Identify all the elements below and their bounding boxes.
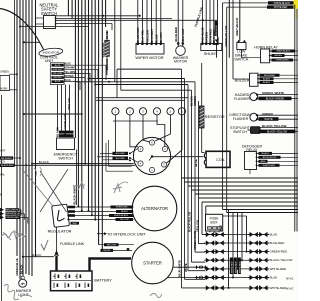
svg-text:BOX: BOX [211, 220, 219, 224]
svg-text:REGULATOR: REGULATOR [48, 228, 72, 233]
svg-text:W/ A/C: W/ A/C [286, 277, 294, 280]
svg-text:WHITE-RED: WHITE-RED [231, 261, 233, 273]
svg-text:BLACK: BLACK [159, 31, 163, 42]
svg-text:RESISTOR: RESISTOR [205, 114, 225, 119]
svg-text:BLUE: BLUE [270, 233, 278, 237]
svg-text:ACK: ACK [0, 160, 5, 163]
svg-text:BLUE: BLUE [55, 81, 61, 83]
svg-text:GREEN-BLUE: GREEN-BLUE [15, 258, 19, 276]
svg-text:YELLOW: YELLOW [67, 98, 71, 110]
svg-text:BLU-WHT: BLU-WHT [181, 28, 185, 41]
svg-text:SWITCH: SWITCH [233, 130, 247, 134]
svg-text:WHITE: WHITE [264, 117, 273, 121]
svg-text:BLU-WHT: BLU-WHT [150, 29, 154, 43]
svg-text:BLUE-RED: BLUE-RED [264, 75, 275, 77]
svg-text:W/ A/C: W/ A/C [286, 288, 294, 291]
svg-text:NAL: NAL [0, 173, 5, 176]
svg-text:BLACK-YELLOW: BLACK-YELLOW [262, 124, 286, 128]
svg-text:BLACK-YELLOW: BLACK-YELLOW [267, 129, 288, 133]
svg-text:INDICATOR: INDICATOR [43, 51, 60, 55]
svg-text:RED: RED [219, 225, 223, 231]
svg-text:GREY-BLACK: GREY-BLACK [276, 50, 290, 53]
svg-text:BLUE-RED: BLUE-RED [174, 27, 178, 41]
svg-text:BLK-YEL: BLK-YEL [141, 30, 145, 43]
svg-text:GREEN: GREEN [262, 112, 273, 116]
svg-text:BLUE: BLUE [194, 159, 198, 167]
svg-text:YELLOW: YELLOW [120, 219, 129, 221]
svg-text:WHITE-BLUE: WHITE-BLUE [6, 214, 20, 216]
svg-text:BLACK: BLACK [121, 210, 128, 213]
svg-text:BROWN: BROWN [54, 77, 62, 79]
svg-text:BLACK: BLACK [263, 81, 271, 84]
svg-text:RED-BLUE: RED-BLUE [216, 25, 218, 36]
svg-text:BLACK: BLACK [32, 253, 42, 257]
svg-text:BROWN: BROWN [65, 76, 74, 78]
svg-text:BATTERY: BATTERY [94, 278, 112, 283]
svg-text:GREEN- WHITE: GREEN- WHITE [262, 91, 284, 95]
svg-text:WHITE-RED: WHITE-RED [270, 286, 287, 290]
svg-text:BLUE: BLUE [155, 35, 159, 43]
svg-text:GREY-BLACK: GREY-BLACK [235, 17, 239, 36]
svg-text:YELLOW: YELLOW [196, 220, 200, 232]
svg-text:MOTOR: MOTOR [174, 60, 187, 64]
svg-text:GREEN-RED: GREEN-RED [276, 60, 290, 62]
svg-text:WHITE-RED: WHITE-RED [274, 6, 288, 9]
svg-text:WHT: WHT [72, 223, 77, 225]
svg-text:WHITE-RED: WHITE-RED [7, 217, 20, 219]
svg-text:FLASHER: FLASHER [234, 97, 251, 101]
svg-text:WHITE-RED: WHITE-RED [116, 207, 128, 209]
svg-text:BLUE: BLUE [65, 64, 72, 66]
svg-text:M: M [0, 194, 2, 197]
svg-text:BLACK-GREEN: BLACK-GREEN [266, 96, 285, 100]
svg-text:GRN-WHT: GRN-WHT [65, 68, 77, 70]
svg-text:BLACK: BLACK [39, 160, 50, 164]
svg-text:BLK-RED: BLK-RED [116, 153, 126, 155]
svg-text:BLUE: BLUE [65, 80, 72, 82]
svg-text:YELLOW: YELLOW [145, 30, 149, 43]
svg-text:WHITE-RED: WHITE-RED [263, 165, 276, 167]
svg-text:4: 4 [102, 234, 104, 238]
svg-text:WIPER MOTOR: WIPER MOTOR [135, 55, 163, 60]
svg-text:SWITCH: SWITCH [58, 156, 73, 160]
svg-text:BLACK-YELLOW: BLACK-YELLOW [270, 258, 293, 262]
svg-text:WHITE-RED: WHITE-RED [270, 267, 287, 271]
svg-text:BLUE-RED: BLUE-RED [270, 241, 285, 245]
svg-text:STARTER: STARTER [143, 261, 162, 266]
svg-text:GREEN-YELLOW: GREEN-YELLOW [224, 25, 228, 47]
svg-text:BLACK-RED: BLACK-RED [1, 164, 14, 167]
svg-text:BLUE-RED: BLUE-RED [136, 26, 140, 42]
svg-text:WHITE-RED: WHITE-RED [239, 261, 241, 273]
svg-text:RESISTOR: RESISTOR [101, 42, 105, 58]
svg-text:SHUNT: SHUNT [204, 51, 218, 56]
svg-text:ALTERNATOR: ALTERNATOR [141, 206, 168, 211]
svg-text:GREEN-WHITE: GREEN-WHITE [193, 231, 197, 250]
svg-text:BLACK: BLACK [19, 265, 23, 274]
svg-text:BLUE-WHITE: BLUE-WHITE [263, 157, 277, 159]
svg-text:GREEN: GREEN [274, 55, 282, 57]
svg-text:RED-WHITE: RED-WHITE [6, 210, 19, 212]
svg-text:BLACK: BLACK [262, 152, 270, 155]
svg-text:BLACK-WHITE: BLACK-WHITE [73, 185, 77, 205]
svg-text:YELLOW: YELLOW [107, 244, 117, 246]
svg-text:GREEN-RED: GREEN-RED [270, 250, 288, 254]
svg-text:GHT: GHT [0, 149, 6, 152]
svg-text:RED: RED [261, 161, 266, 163]
svg-text:TO INTERLOCK UNIT: TO INTERLOCK UNIT [107, 232, 146, 237]
svg-text:GREEN: GREEN [0, 71, 9, 74]
svg-text:FUSIBLE LINK: FUSIBLE LINK [60, 242, 85, 246]
svg-text:COIL: COIL [216, 158, 225, 162]
svg-text:WHITE-BLACK: WHITE-BLACK [274, 2, 291, 5]
svg-text:BLUE-WHITE: BLUE-WHITE [177, 260, 181, 277]
svg-text:FLASHER: FLASHER [233, 117, 249, 121]
svg-text:WHITE-BLACK: WHITE-BLACK [114, 214, 129, 217]
svg-text:BLACK-YELLOW: BLACK-YELLOW [188, 211, 191, 232]
svg-text:WHITE-RED: WHITE-RED [235, 261, 237, 273]
svg-text:BLACK: BLACK [263, 78, 271, 81]
svg-text:WHITE: WHITE [103, 250, 111, 252]
svg-text:BLUE: BLUE [55, 65, 61, 67]
svg-text:BLUE: BLUE [270, 276, 278, 280]
svg-text:GRN-WHT: GRN-WHT [52, 69, 63, 71]
svg-text:YEL-GRN: YEL-GRN [65, 72, 76, 74]
svg-text:YEL-GRN: YEL-GRN [53, 73, 63, 75]
svg-text:HORN: HORN [1, 89, 8, 91]
